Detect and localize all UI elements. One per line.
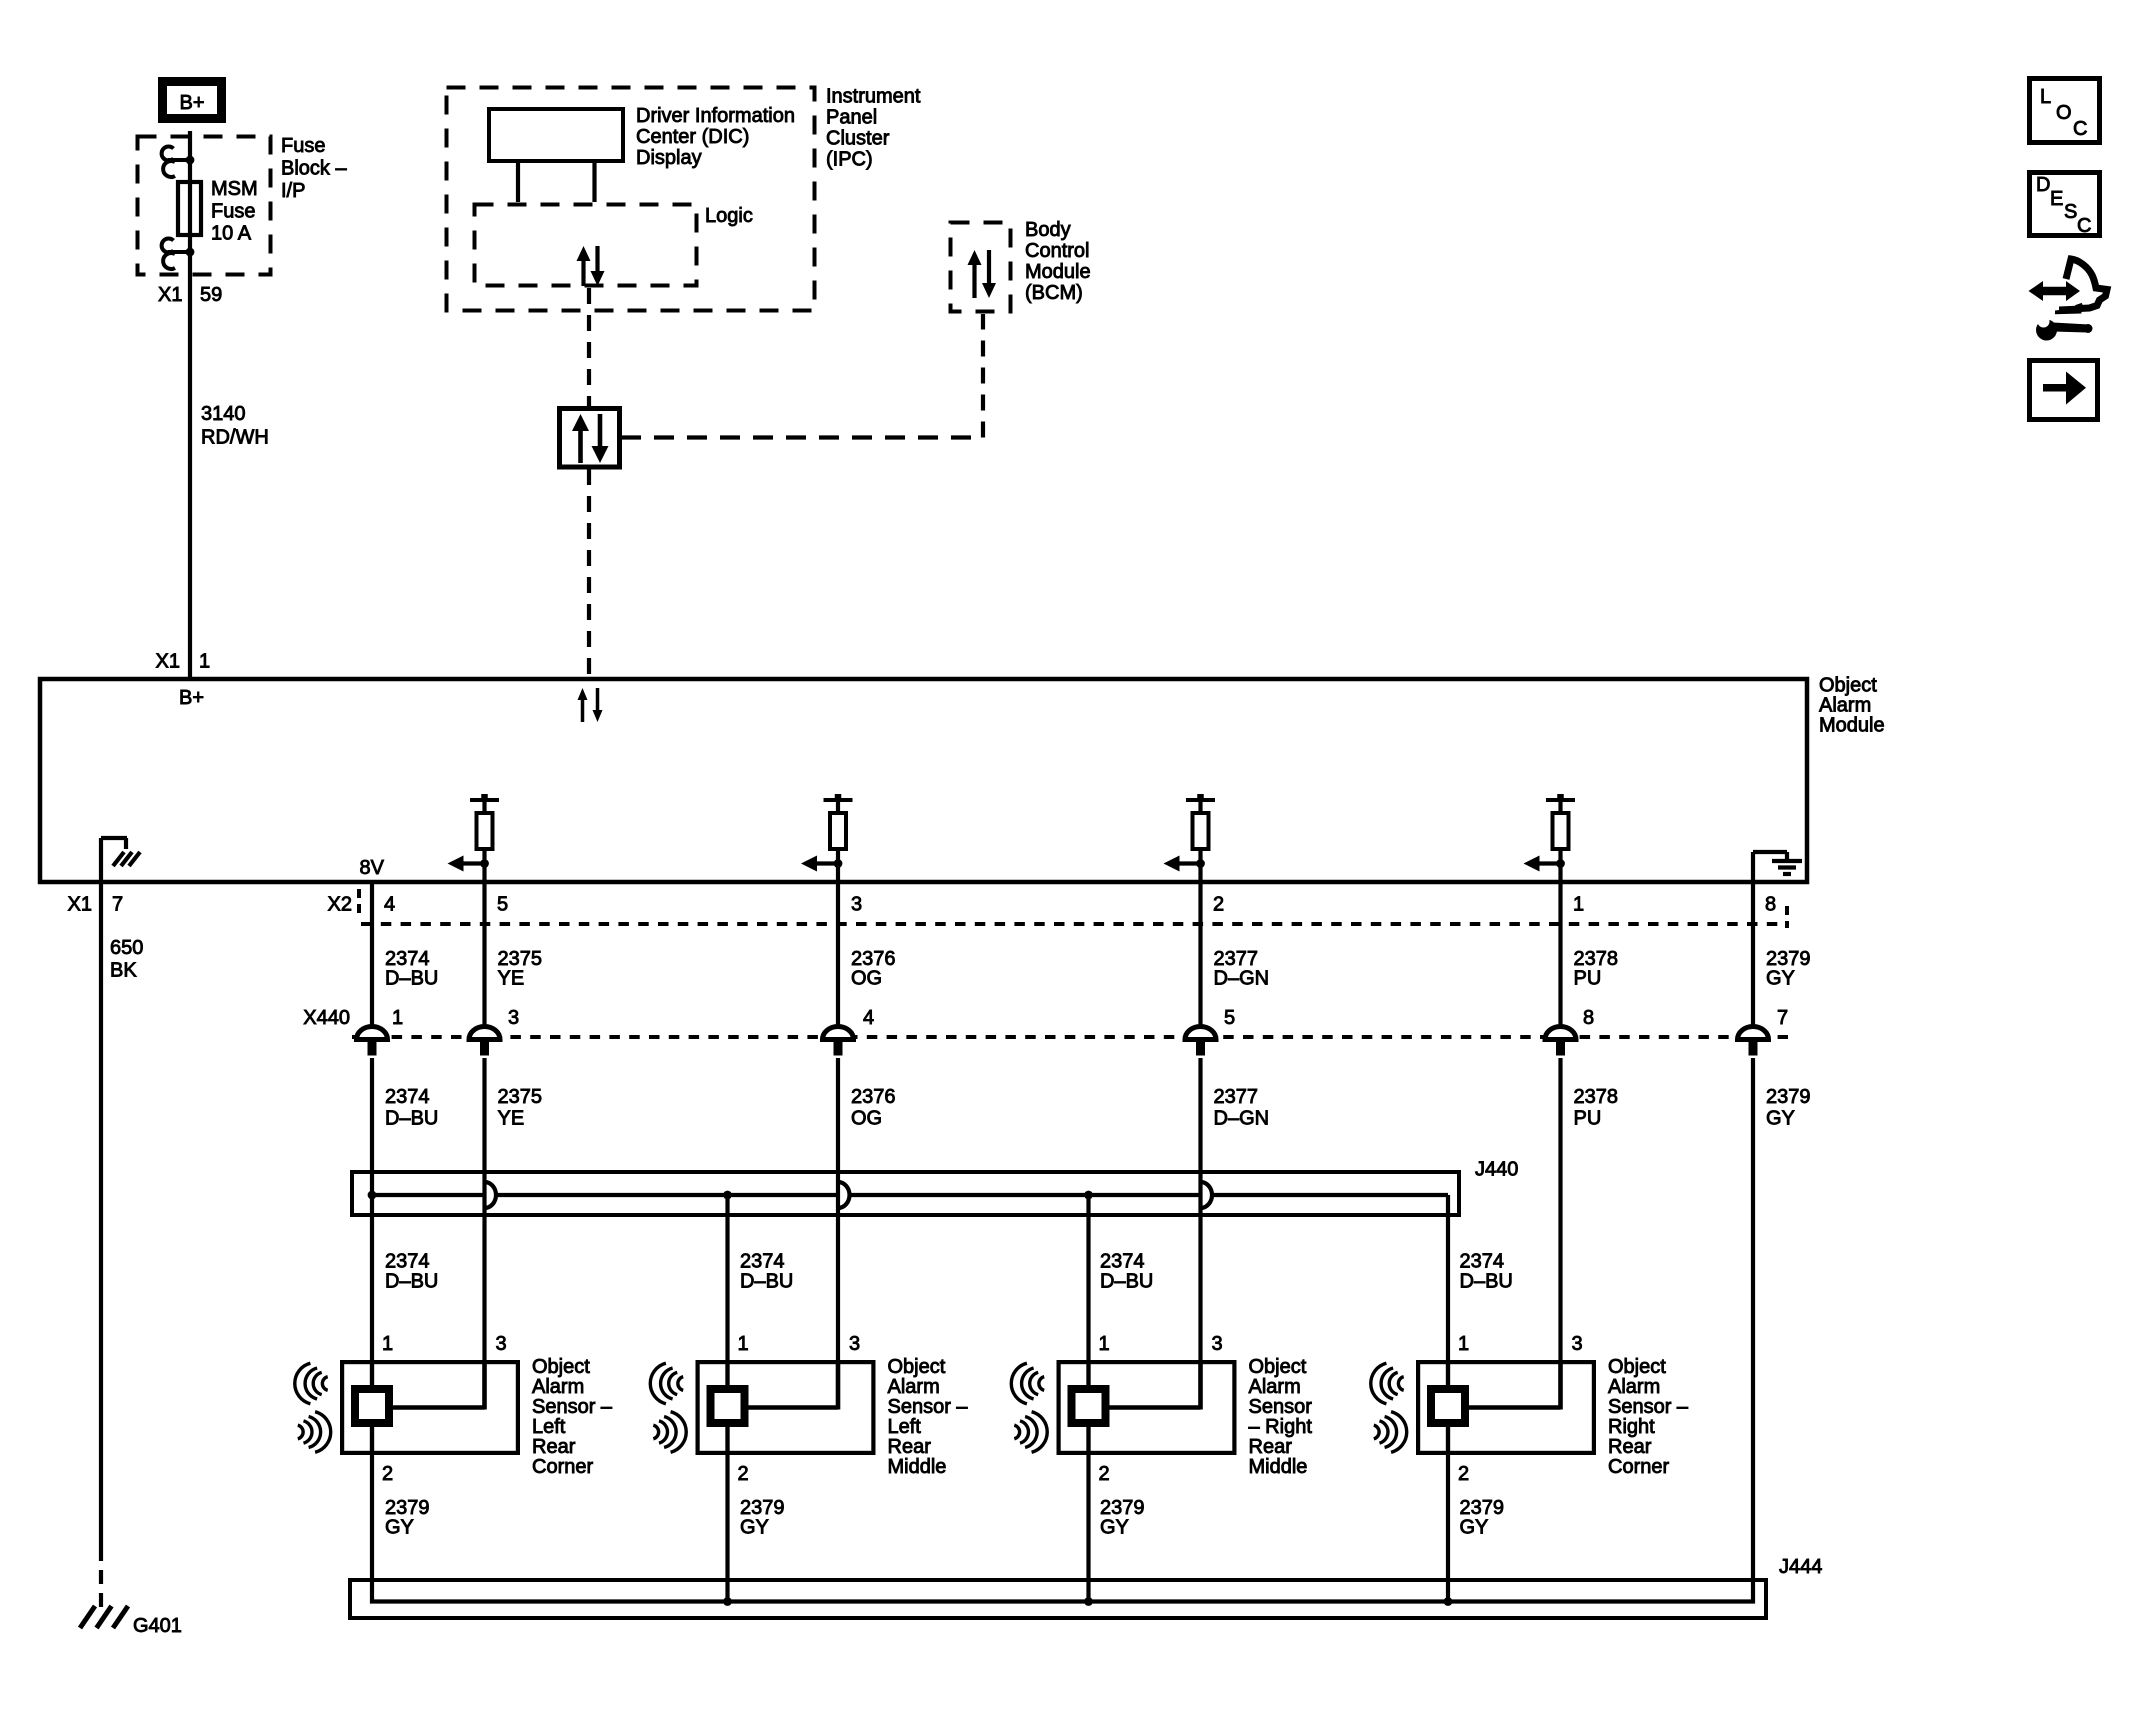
- svg-text:1: 1: [738, 1333, 749, 1355]
- svg-text:Center (DIC): Center (DIC): [636, 126, 749, 148]
- svg-text:Module: Module: [1819, 715, 1885, 737]
- svg-text:YE: YE: [498, 1108, 525, 1130]
- svg-text:Left: Left: [532, 1416, 566, 1438]
- svg-text:Logic: Logic: [705, 205, 753, 227]
- svg-text:OG: OG: [851, 1108, 882, 1130]
- svg-text:RD/WH: RD/WH: [201, 427, 269, 449]
- svg-text:D–BU: D–BU: [385, 1108, 438, 1130]
- svg-text:Object: Object: [1819, 675, 1877, 697]
- svg-text:8V: 8V: [360, 857, 385, 879]
- svg-text:D: D: [2036, 174, 2050, 196]
- svg-text:Alarm: Alarm: [1608, 1376, 1660, 1398]
- svg-text:3: 3: [1572, 1333, 1583, 1355]
- svg-text:C: C: [2073, 118, 2087, 140]
- svg-text:1: 1: [1458, 1333, 1469, 1355]
- svg-text:Fuse: Fuse: [281, 135, 325, 157]
- svg-text:2376: 2376: [851, 1086, 896, 1108]
- svg-text:650: 650: [110, 937, 143, 959]
- svg-text:8: 8: [1583, 1007, 1594, 1029]
- svg-text:X1: X1: [156, 651, 180, 673]
- svg-text:Block –: Block –: [281, 158, 347, 180]
- svg-text:MSM: MSM: [211, 178, 258, 200]
- svg-text:Corner: Corner: [1608, 1456, 1669, 1478]
- svg-text:Panel: Panel: [826, 107, 877, 129]
- svg-text:2377: 2377: [1214, 1086, 1259, 1108]
- svg-text:Middle: Middle: [888, 1456, 947, 1478]
- svg-text:X1: X1: [158, 284, 182, 306]
- svg-text:YE: YE: [498, 968, 525, 990]
- svg-text:2374: 2374: [740, 1251, 785, 1273]
- svg-text:Rear: Rear: [1608, 1436, 1652, 1458]
- svg-text:1: 1: [382, 1333, 393, 1355]
- svg-text:PU: PU: [1574, 1108, 1602, 1130]
- svg-text:Fuse: Fuse: [211, 201, 255, 223]
- svg-text:S: S: [2064, 201, 2077, 223]
- svg-text:Alarm: Alarm: [1819, 695, 1871, 717]
- svg-text:Alarm: Alarm: [1249, 1376, 1301, 1398]
- svg-text:(IPC): (IPC): [826, 149, 873, 171]
- svg-text:D–BU: D–BU: [1100, 1271, 1153, 1293]
- svg-text:2: 2: [738, 1463, 749, 1485]
- svg-text:2378: 2378: [1574, 1086, 1619, 1108]
- svg-text:GY: GY: [1460, 1517, 1489, 1539]
- svg-text:B+: B+: [179, 687, 204, 709]
- svg-text:2: 2: [1099, 1463, 1110, 1485]
- svg-text:Alarm: Alarm: [532, 1376, 584, 1398]
- svg-text:O: O: [2056, 102, 2072, 124]
- svg-text:2375: 2375: [498, 1086, 543, 1108]
- svg-text:(BCM): (BCM): [1025, 282, 1083, 304]
- svg-text:Sensor: Sensor: [1249, 1396, 1313, 1418]
- svg-text:C: C: [2077, 215, 2091, 237]
- svg-text:G401: G401: [133, 1615, 182, 1637]
- svg-text:2374: 2374: [1100, 1251, 1145, 1273]
- svg-text:2: 2: [382, 1463, 393, 1485]
- svg-text:GY: GY: [1766, 968, 1795, 990]
- svg-text:Instrument: Instrument: [826, 86, 921, 108]
- svg-text:7: 7: [112, 894, 123, 916]
- svg-text:3: 3: [851, 894, 862, 916]
- svg-text:2: 2: [1213, 894, 1224, 916]
- svg-text:X440: X440: [303, 1007, 350, 1029]
- svg-text:Display: Display: [636, 147, 702, 169]
- svg-text:Sensor –: Sensor –: [532, 1396, 613, 1418]
- svg-text:D–BU: D–BU: [1460, 1271, 1513, 1293]
- svg-text:GY: GY: [385, 1517, 414, 1539]
- svg-text:X1: X1: [68, 894, 92, 916]
- svg-text:1: 1: [199, 651, 210, 673]
- svg-text:Rear: Rear: [532, 1436, 576, 1458]
- svg-text:Rear: Rear: [888, 1436, 932, 1458]
- svg-text:1: 1: [1099, 1333, 1110, 1355]
- svg-text:8: 8: [1765, 894, 1776, 916]
- svg-text:D–GN: D–GN: [1214, 1108, 1270, 1130]
- svg-text:3140: 3140: [201, 403, 246, 425]
- svg-text:2374: 2374: [385, 1251, 430, 1273]
- svg-text:Object: Object: [888, 1356, 946, 1378]
- svg-text:Middle: Middle: [1249, 1456, 1308, 1478]
- svg-text:L: L: [2040, 86, 2051, 108]
- svg-text:Module: Module: [1025, 261, 1091, 283]
- svg-text:5: 5: [497, 894, 508, 916]
- svg-text:I/P: I/P: [281, 180, 305, 202]
- svg-text:Sensor –: Sensor –: [1608, 1396, 1689, 1418]
- svg-text:Alarm: Alarm: [888, 1376, 940, 1398]
- svg-text:Object: Object: [1249, 1356, 1307, 1378]
- svg-text:Left: Left: [888, 1416, 922, 1438]
- svg-text:1: 1: [392, 1007, 403, 1029]
- svg-text:D–GN: D–GN: [1214, 968, 1270, 990]
- svg-text:4: 4: [384, 894, 395, 916]
- svg-text:3: 3: [1212, 1333, 1223, 1355]
- svg-text:7: 7: [1777, 1007, 1788, 1029]
- svg-text:X2: X2: [328, 894, 352, 916]
- svg-text:D–BU: D–BU: [385, 968, 438, 990]
- svg-text:B+: B+: [179, 92, 204, 114]
- svg-text:2: 2: [1458, 1463, 1469, 1485]
- svg-text:Right: Right: [1608, 1416, 1655, 1438]
- svg-text:D–BU: D–BU: [385, 1271, 438, 1293]
- svg-text:5: 5: [1224, 1007, 1235, 1029]
- svg-text:GY: GY: [1100, 1517, 1129, 1539]
- svg-text:OG: OG: [851, 968, 882, 990]
- svg-text:E: E: [2050, 188, 2063, 210]
- svg-text:Body: Body: [1025, 219, 1071, 241]
- svg-text:J440: J440: [1475, 1159, 1518, 1181]
- svg-text:GY: GY: [740, 1517, 769, 1539]
- svg-text:4: 4: [863, 1007, 874, 1029]
- svg-text:2374: 2374: [385, 1086, 430, 1108]
- svg-text:3: 3: [496, 1333, 507, 1355]
- svg-text:Cluster: Cluster: [826, 128, 890, 150]
- svg-text:59: 59: [200, 284, 222, 306]
- svg-text:2374: 2374: [1460, 1251, 1505, 1273]
- svg-text:Driver Information: Driver Information: [636, 105, 795, 127]
- svg-text:10 A: 10 A: [211, 223, 252, 245]
- svg-text:Sensor –: Sensor –: [888, 1396, 969, 1418]
- svg-text:3: 3: [508, 1007, 519, 1029]
- svg-text:Rear: Rear: [1249, 1436, 1293, 1458]
- svg-text:BK: BK: [110, 960, 137, 982]
- svg-text:GY: GY: [1766, 1108, 1795, 1130]
- svg-text:Corner: Corner: [532, 1456, 593, 1478]
- svg-text:Object: Object: [1608, 1356, 1666, 1378]
- svg-text:Object: Object: [532, 1356, 590, 1378]
- svg-text:Control: Control: [1025, 240, 1089, 262]
- svg-text:3: 3: [849, 1333, 860, 1355]
- svg-text:D–BU: D–BU: [740, 1271, 793, 1293]
- svg-text:2379: 2379: [1766, 1086, 1811, 1108]
- svg-text:PU: PU: [1574, 968, 1602, 990]
- svg-text:– Right: – Right: [1249, 1416, 1313, 1438]
- svg-text:J444: J444: [1779, 1556, 1822, 1578]
- svg-text:1: 1: [1573, 894, 1584, 916]
